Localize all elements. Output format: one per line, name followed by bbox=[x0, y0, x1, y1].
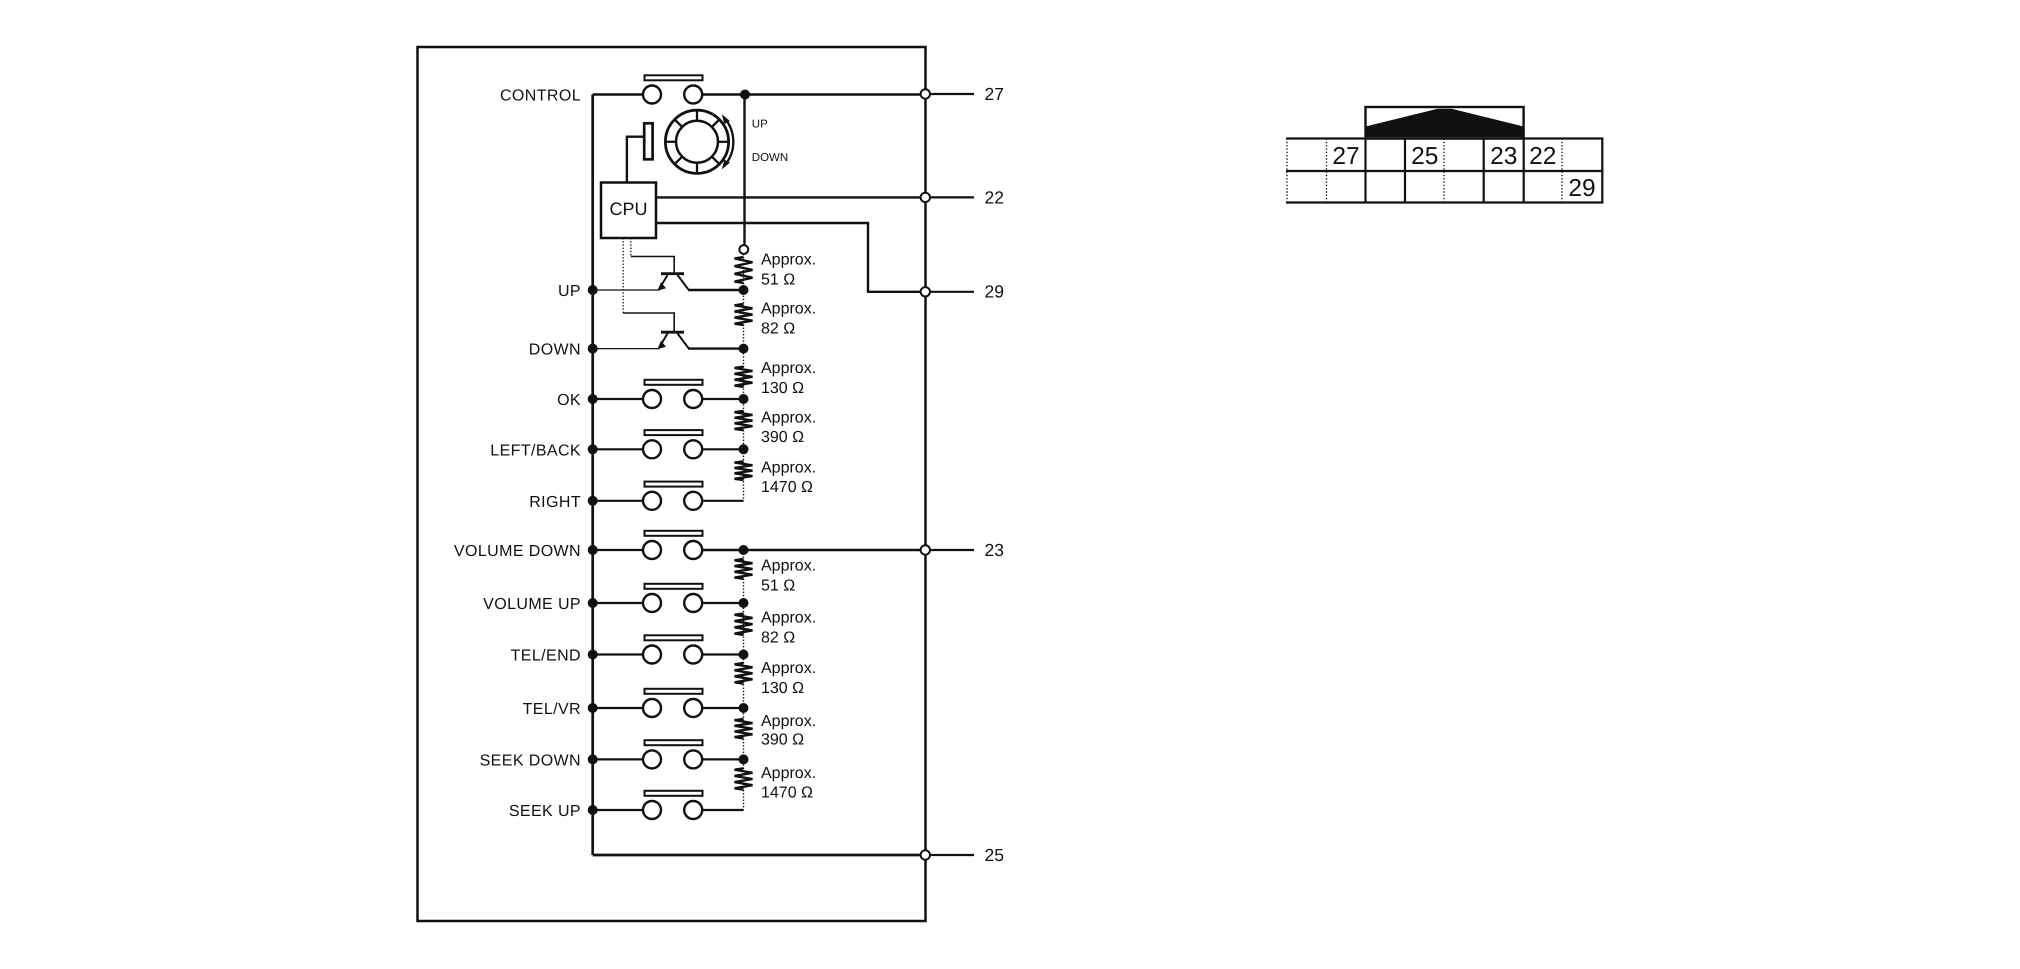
svg-text:TEL/END: TEL/END bbox=[511, 648, 581, 665]
wire switch VOLUME UP to resistor chain bbox=[702, 602, 744, 604]
svg-text:1470 Ω: 1470 Ω bbox=[761, 479, 813, 496]
node OK on bus bbox=[588, 394, 598, 404]
svg-text:130 Ω: 130 Ω bbox=[761, 380, 804, 397]
CPU U1 bbox=[601, 183, 656, 239]
switch TEL/END contact 1 bbox=[643, 646, 661, 664]
svg-text:51 Ω: 51 Ω bbox=[761, 271, 795, 288]
outer box (switch assembly) bbox=[418, 47, 926, 921]
node TEL/END on bus bbox=[588, 650, 598, 660]
pin 27 bbox=[921, 89, 930, 98]
svg-text:DOWN: DOWN bbox=[752, 152, 788, 164]
wire sensor to CPU bbox=[627, 137, 644, 182]
svg-text:OK: OK bbox=[557, 392, 581, 409]
wire bus to switch RIGHT bbox=[593, 500, 644, 502]
node R chain LEFT/BACK bbox=[739, 444, 749, 454]
svg-text:SEEK UP: SEEK UP bbox=[509, 803, 581, 820]
wire switch VOLUME DOWN to pin 23 bbox=[702, 549, 926, 551]
switch RIGHT actuator bar bbox=[645, 482, 703, 487]
svg-text:Approx.: Approx. bbox=[761, 409, 816, 426]
wire bus to switch VOLUME UP bbox=[593, 602, 644, 604]
svg-text:UP: UP bbox=[558, 283, 581, 300]
node DOWN bbox=[588, 344, 598, 354]
wire Q1 collector to resistor chain bbox=[688, 289, 744, 291]
svg-text:29: 29 bbox=[1568, 175, 1595, 202]
switch VOLUME DOWN contact 2 bbox=[684, 541, 702, 559]
switch CONTROL contact 2 bbox=[684, 86, 702, 104]
svg-text:390 Ω: 390 Ω bbox=[761, 429, 804, 446]
wire switch TEL/VR to resistor chain bbox=[702, 707, 744, 709]
wire switch OK to resistor chain bbox=[702, 398, 744, 400]
switch TEL/END actuator bar bbox=[645, 635, 703, 640]
encoder rotation arrow arc bbox=[725, 119, 733, 166]
resistor R8 130 ohm bbox=[735, 663, 753, 684]
switch OK actuator bar bbox=[645, 380, 703, 385]
wire bus to switch OK bbox=[593, 398, 644, 400]
wire R10 bottom to SEEK UP switch bbox=[702, 809, 744, 811]
svg-text:Approx.: Approx. bbox=[761, 252, 816, 269]
svg-text:27: 27 bbox=[1332, 143, 1359, 170]
resistor R7 82 ohm bbox=[735, 613, 753, 635]
svg-text:25: 25 bbox=[985, 845, 1004, 865]
node open terminal above R1 bbox=[739, 245, 748, 254]
wire CPU to pin 29 bbox=[656, 223, 926, 292]
switch TEL/VR contact 2 bbox=[684, 699, 702, 717]
rotary encoder wheel bbox=[665, 110, 728, 173]
svg-text:UP: UP bbox=[752, 118, 768, 130]
wire UP row to Q1 emitter bbox=[593, 289, 660, 291]
switch VOLUME DOWN contact 1 bbox=[643, 541, 661, 559]
switch CONTROL contact 1 bbox=[643, 86, 661, 104]
switch TEL/VR actuator bar bbox=[645, 689, 703, 694]
node LEFT/BACK on bus bbox=[588, 444, 598, 454]
svg-text:LEFT/BACK: LEFT/BACK bbox=[490, 442, 581, 459]
wire bus to switch TEL/END bbox=[593, 653, 644, 655]
svg-text:Approx.: Approx. bbox=[761, 459, 816, 476]
pin 29 bbox=[921, 287, 930, 296]
switch VOLUME UP contact 1 bbox=[643, 594, 661, 612]
switch SEEK UP contact 1 bbox=[643, 801, 661, 819]
pin 23 bbox=[921, 545, 930, 554]
CPU control line to Q2 base (dotted) bbox=[622, 238, 624, 313]
svg-text:RIGHT: RIGHT bbox=[529, 494, 581, 511]
wire switch LEFT/BACK to resistor chain bbox=[702, 448, 744, 450]
wire switch TEL/END to resistor chain bbox=[702, 653, 744, 655]
switch LEFT/BACK contact 1 bbox=[643, 440, 661, 458]
svg-text:CPU: CPU bbox=[609, 199, 647, 219]
svg-text:22: 22 bbox=[1529, 143, 1556, 170]
svg-text:Approx.: Approx. bbox=[761, 558, 816, 575]
svg-text:Approx.: Approx. bbox=[761, 610, 816, 627]
node SEEK UP on bus bbox=[588, 805, 598, 815]
resistor R3 130 ohm bbox=[735, 367, 753, 387]
junction node control bbox=[740, 90, 750, 100]
wire bus to switch SEEK UP bbox=[593, 809, 644, 811]
node SEEK DOWN on bus bbox=[588, 754, 598, 764]
encoder sensor element bbox=[644, 123, 652, 159]
pin 25 bbox=[921, 850, 930, 859]
CPU control line to Q1 base (dotted) bbox=[630, 238, 632, 257]
resistor R10 1470 ohm bbox=[735, 768, 753, 789]
lower resistor chain spine (dotted) bbox=[743, 550, 745, 810]
svg-text:Approx.: Approx. bbox=[761, 660, 816, 677]
wire R5 bottom to RIGHT switch bbox=[702, 500, 744, 502]
svg-text:VOLUME UP: VOLUME UP bbox=[483, 596, 581, 613]
node R chain DOWN bbox=[739, 344, 749, 354]
svg-text:23: 23 bbox=[985, 540, 1004, 560]
wire switch to pin 27 bbox=[702, 93, 926, 95]
node R chain OK bbox=[739, 394, 749, 404]
resistor R1 51 ohm bbox=[735, 257, 753, 283]
wire bus to switch SEEK DOWN bbox=[593, 758, 644, 760]
svg-text:23: 23 bbox=[1490, 143, 1517, 170]
svg-text:CONTROL: CONTROL bbox=[500, 88, 581, 105]
switch LEFT/BACK contact 2 bbox=[684, 440, 702, 458]
node VOLUME DOWN on bus bbox=[588, 545, 598, 555]
node VOLUME UP on bus bbox=[588, 598, 598, 608]
svg-text:Approx.: Approx. bbox=[761, 713, 816, 730]
svg-text:1470 Ω: 1470 Ω bbox=[761, 784, 813, 801]
switch VOLUME DOWN actuator bar bbox=[645, 531, 703, 536]
resistor R5 1470 ohm bbox=[735, 461, 753, 480]
pin 22 bbox=[921, 193, 930, 202]
switch VOLUME UP actuator bar bbox=[645, 584, 703, 589]
connector pinout table bbox=[1286, 139, 1603, 203]
switch SEEK UP actuator bar bbox=[645, 791, 703, 796]
switch CONTROL actuator bar bbox=[645, 75, 703, 80]
wire bus to switch LEFT/BACK bbox=[593, 448, 644, 450]
transistor Q2 (DOWN) bbox=[657, 332, 688, 349]
node R chain VOLUME UP bbox=[739, 598, 749, 608]
switch SEEK UP contact 2 bbox=[684, 801, 702, 819]
resistor R2 82 ohm bbox=[735, 304, 753, 325]
svg-text:Approx.: Approx. bbox=[761, 765, 816, 782]
svg-text:TEL/VR: TEL/VR bbox=[523, 701, 581, 718]
node TEL/VR on bus bbox=[588, 703, 598, 713]
switch RIGHT contact 2 bbox=[684, 492, 702, 510]
resistor R4 390 ohm bbox=[735, 411, 753, 430]
svg-text:22: 22 bbox=[985, 187, 1004, 207]
svg-text:Approx.: Approx. bbox=[761, 360, 816, 377]
node R chain UP bbox=[739, 285, 749, 295]
upper resistor chain spine (dotted) bbox=[743, 254, 745, 501]
svg-text:SEEK DOWN: SEEK DOWN bbox=[480, 752, 581, 769]
svg-text:25: 25 bbox=[1411, 143, 1438, 170]
switch VOLUME UP contact 2 bbox=[684, 594, 702, 612]
wire Q2 collector to resistor chain bbox=[688, 347, 744, 349]
switch TEL/END contact 2 bbox=[684, 646, 702, 664]
wire switch SEEK DOWN to resistor chain bbox=[702, 758, 744, 760]
node UP bbox=[588, 285, 598, 295]
svg-text:27: 27 bbox=[985, 84, 1004, 104]
svg-text:390 Ω: 390 Ω bbox=[761, 732, 804, 749]
wire CONTROL to switch bbox=[593, 93, 644, 95]
switch OK contact 2 bbox=[684, 390, 702, 408]
svg-text:82 Ω: 82 Ω bbox=[761, 630, 795, 647]
svg-text:29: 29 bbox=[985, 282, 1004, 302]
svg-text:130 Ω: 130 Ω bbox=[761, 680, 804, 697]
transistor Q1 (UP) bbox=[657, 274, 688, 291]
node R chain VOLUME DOWN bbox=[739, 545, 749, 555]
node R chain SEEK DOWN bbox=[739, 754, 749, 764]
svg-text:DOWN: DOWN bbox=[529, 342, 581, 359]
resistor R6 51 ohm bbox=[735, 559, 753, 579]
switch SEEK DOWN contact 1 bbox=[643, 750, 661, 768]
node R chain TEL/VR bbox=[739, 703, 749, 713]
switch TEL/VR contact 1 bbox=[643, 699, 661, 717]
node R chain TEL/END bbox=[739, 650, 749, 660]
wire CPU to pin 22 bbox=[656, 196, 926, 198]
bottom bus wire to pin 25 bbox=[593, 854, 926, 857]
node RIGHT on bus bbox=[588, 496, 598, 506]
wire bus to switch TEL/VR bbox=[593, 707, 644, 709]
left bus wire (vertical) bbox=[591, 95, 594, 856]
wire DOWN row to Q2 emitter bbox=[593, 348, 660, 350]
wire junction down to encoder resistor chain bbox=[743, 95, 745, 246]
switch SEEK DOWN contact 2 bbox=[684, 750, 702, 768]
wire bus to switch VOLUME DOWN bbox=[593, 549, 644, 551]
switch SEEK DOWN actuator bar bbox=[645, 740, 703, 745]
svg-text:Approx.: Approx. bbox=[761, 300, 816, 317]
switch LEFT/BACK actuator bar bbox=[645, 430, 703, 435]
svg-text:82 Ω: 82 Ω bbox=[761, 321, 795, 338]
switch RIGHT contact 1 bbox=[643, 492, 661, 510]
resistor R9 390 ohm bbox=[735, 719, 753, 739]
connector tab bbox=[1366, 107, 1524, 139]
svg-text:VOLUME DOWN: VOLUME DOWN bbox=[454, 543, 581, 560]
switch OK contact 1 bbox=[643, 390, 661, 408]
svg-text:51 Ω: 51 Ω bbox=[761, 578, 795, 595]
